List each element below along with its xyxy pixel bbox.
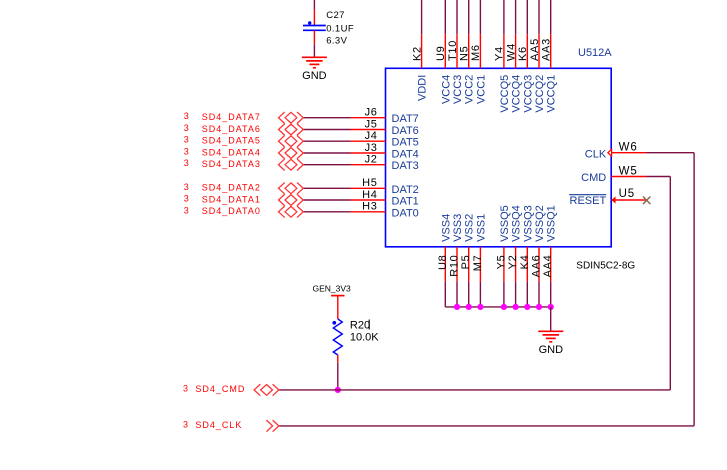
svg-text:CMD: CMD [581, 172, 606, 184]
svg-text:W5: W5 [619, 165, 638, 177]
svg-text:U5: U5 [619, 188, 636, 200]
svg-text:VSSQ4: VSSQ4 [511, 205, 523, 242]
svg-text:R10: R10 [449, 255, 461, 277]
svg-text:6.3V: 6.3V [326, 36, 347, 47]
svg-text:SD4_DATA5: SD4_DATA5 [202, 136, 261, 146]
svg-text:DAT6: DAT6 [392, 125, 419, 137]
svg-text:DAT2: DAT2 [392, 184, 419, 196]
svg-text:3: 3 [183, 383, 188, 393]
svg-text:W6: W6 [619, 142, 638, 154]
svg-text:K4: K4 [519, 255, 531, 270]
svg-text:DAT5: DAT5 [392, 137, 419, 149]
svg-text:VCCQ4: VCCQ4 [511, 75, 523, 113]
svg-text:DAT7: DAT7 [392, 113, 419, 125]
svg-text:0.1UF: 0.1UF [326, 23, 354, 34]
svg-text:U9: U9 [435, 46, 447, 61]
svg-text:RESET: RESET [570, 195, 607, 207]
svg-text:J4: J4 [365, 130, 378, 142]
svg-text:W4: W4 [505, 43, 517, 61]
svg-text:VCCQ3: VCCQ3 [522, 75, 534, 113]
svg-text:SD4_CMD: SD4_CMD [195, 384, 245, 394]
svg-text:VCCQ5: VCCQ5 [499, 75, 511, 113]
svg-text:VCC2: VCC2 [464, 75, 476, 104]
svg-text:SD4_CLK: SD4_CLK [195, 420, 242, 430]
svg-text:K2: K2 [411, 46, 423, 61]
svg-text:R20: R20 [350, 319, 370, 331]
svg-text:AA6: AA6 [531, 255, 543, 278]
svg-text:VSSQ3: VSSQ3 [522, 205, 534, 242]
svg-text:M6: M6 [470, 44, 482, 61]
svg-text:3: 3 [184, 158, 189, 168]
svg-text:3: 3 [184, 135, 189, 145]
svg-text:AA5: AA5 [529, 38, 541, 61]
svg-text:VSS3: VSS3 [452, 214, 464, 242]
svg-text:SD4_DATA0: SD4_DATA0 [202, 206, 261, 216]
svg-text:SD4_DATA1: SD4_DATA1 [202, 194, 261, 204]
svg-text:DAT1: DAT1 [392, 196, 419, 208]
svg-text:H4: H4 [362, 189, 377, 201]
svg-text:SD4_DATA6: SD4_DATA6 [202, 124, 261, 134]
svg-text:GND: GND [302, 70, 327, 82]
svg-text:H3: H3 [362, 201, 377, 213]
svg-text:VCC3: VCC3 [452, 75, 464, 104]
svg-text:3: 3 [184, 123, 189, 133]
svg-text:VCCQ1: VCCQ1 [546, 75, 558, 113]
svg-text:H5: H5 [362, 177, 377, 189]
svg-text:Y4: Y4 [494, 46, 506, 61]
svg-text:K6: K6 [517, 46, 529, 61]
svg-text:J5: J5 [365, 118, 378, 130]
svg-text:VSSQ5: VSSQ5 [499, 205, 511, 242]
svg-text:Y2: Y2 [507, 255, 519, 270]
svg-text:CLK: CLK [585, 149, 607, 161]
svg-text:Y5: Y5 [495, 255, 507, 270]
svg-text:DAT4: DAT4 [392, 149, 419, 161]
svg-text:VSSQ2: VSSQ2 [534, 205, 546, 242]
svg-text:U8: U8 [437, 255, 449, 270]
svg-text:J6: J6 [365, 107, 378, 119]
svg-text:VSSQ1: VSSQ1 [546, 205, 558, 242]
svg-text:SD4_DATA3: SD4_DATA3 [202, 159, 261, 169]
svg-text:VSS4: VSS4 [440, 214, 452, 242]
svg-text:T10: T10 [447, 40, 459, 61]
svg-text:VCCQ2: VCCQ2 [534, 75, 546, 113]
svg-text:SD4_DATA4: SD4_DATA4 [202, 147, 261, 157]
svg-text:SD4_DATA7: SD4_DATA7 [202, 112, 261, 122]
svg-text:VSS2: VSS2 [464, 214, 476, 242]
svg-text:J2: J2 [365, 154, 378, 166]
svg-text:GND: GND [539, 344, 564, 356]
svg-text:3: 3 [184, 111, 189, 121]
svg-text:DAT3: DAT3 [392, 160, 419, 172]
svg-text:GEN_3V3: GEN_3V3 [313, 284, 352, 294]
svg-text:VDDI: VDDI [417, 75, 429, 101]
svg-text:U512A: U512A [578, 47, 612, 59]
svg-text:M7: M7 [472, 255, 484, 272]
svg-text:VCC1: VCC1 [475, 75, 487, 104]
svg-text:3: 3 [184, 205, 189, 215]
svg-text:DAT0: DAT0 [392, 207, 419, 219]
svg-text:AA4: AA4 [542, 255, 554, 278]
svg-text:SD4_DATA2: SD4_DATA2 [202, 183, 261, 193]
svg-text:3: 3 [184, 182, 189, 192]
svg-text:P5: P5 [460, 255, 472, 270]
svg-text:3: 3 [184, 147, 189, 157]
svg-text:VCC4: VCC4 [440, 75, 452, 104]
svg-text:3: 3 [184, 194, 189, 204]
svg-text:VSS1: VSS1 [475, 214, 487, 242]
svg-text:C27: C27 [326, 10, 345, 21]
svg-text:AA3: AA3 [541, 38, 553, 61]
svg-text:J3: J3 [365, 142, 378, 154]
svg-text:SDIN5C2-8G: SDIN5C2-8G [576, 261, 635, 272]
svg-text:10.0K: 10.0K [350, 331, 379, 343]
svg-text:3: 3 [183, 419, 188, 429]
svg-text:N5: N5 [459, 46, 471, 61]
